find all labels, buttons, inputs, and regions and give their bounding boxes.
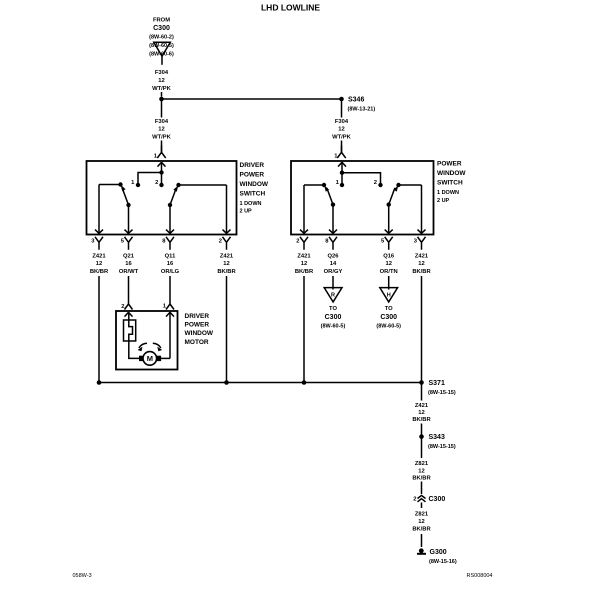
svg-text:POWER: POWER xyxy=(185,321,210,328)
svg-text:DRIVER: DRIVER xyxy=(240,162,265,169)
svg-text:8: 8 xyxy=(325,239,329,245)
svg-text:Z421: Z421 xyxy=(220,254,234,260)
svg-text:BK/BR: BK/BR xyxy=(412,269,431,275)
svg-text:SWITCH: SWITCH xyxy=(437,180,463,187)
svg-text:F304: F304 xyxy=(155,119,169,125)
svg-text:1 DOWN: 1 DOWN xyxy=(240,201,262,207)
svg-text:OR/TN: OR/TN xyxy=(380,269,398,275)
svg-text:RS008004: RS008004 xyxy=(467,573,493,579)
svg-text:C300: C300 xyxy=(380,314,397,321)
svg-text:DRIVER: DRIVER xyxy=(185,313,210,320)
svg-text:BK/BR: BK/BR xyxy=(295,269,314,275)
svg-text:2: 2 xyxy=(296,239,299,245)
svg-text:Q21: Q21 xyxy=(123,254,135,260)
svg-text:12: 12 xyxy=(301,261,307,267)
svg-text:1: 1 xyxy=(154,154,158,160)
svg-text:2 UP: 2 UP xyxy=(240,209,253,215)
svg-text:F304: F304 xyxy=(335,119,349,125)
svg-text:C300: C300 xyxy=(153,25,170,32)
svg-text:(8W-13-21): (8W-13-21) xyxy=(348,107,376,113)
svg-text:14: 14 xyxy=(330,261,337,267)
svg-text:(8W-60-2): (8W-60-2) xyxy=(149,35,174,41)
svg-text:Z421: Z421 xyxy=(297,254,311,260)
svg-text:12: 12 xyxy=(223,261,229,267)
svg-text:(8W-60-5): (8W-60-5) xyxy=(321,323,346,329)
svg-text:12: 12 xyxy=(418,519,424,525)
svg-text:G300: G300 xyxy=(430,549,447,556)
svg-text:Z821: Z821 xyxy=(415,461,429,467)
svg-text:Q16: Q16 xyxy=(383,254,395,260)
svg-text:(8W-15-15): (8W-15-15) xyxy=(428,444,456,450)
svg-text:Q26: Q26 xyxy=(328,254,340,260)
svg-text:Z421: Z421 xyxy=(415,254,429,260)
svg-text:M: M xyxy=(147,354,153,363)
svg-text:R: R xyxy=(331,293,335,299)
svg-text:BK/BR: BK/BR xyxy=(217,269,236,275)
svg-text:BK/BR: BK/BR xyxy=(412,476,431,482)
svg-text:S371: S371 xyxy=(429,380,445,387)
svg-text:16: 16 xyxy=(125,261,132,267)
svg-text:WT/PK: WT/PK xyxy=(152,86,171,92)
svg-text:BK/BR: BK/BR xyxy=(412,417,431,423)
svg-text:OR/GY: OR/GY xyxy=(324,269,343,275)
svg-text:8: 8 xyxy=(162,239,166,245)
svg-text:2 UP: 2 UP xyxy=(437,198,450,204)
svg-text:3: 3 xyxy=(91,239,95,245)
svg-text:C300: C300 xyxy=(429,496,446,503)
svg-text:2: 2 xyxy=(155,180,158,186)
svg-text:12: 12 xyxy=(96,261,102,267)
svg-text:WT/PK: WT/PK xyxy=(332,135,351,141)
svg-text:TO: TO xyxy=(385,306,393,312)
svg-text:F304: F304 xyxy=(155,70,169,76)
svg-text:TO: TO xyxy=(329,306,337,312)
svg-text:2: 2 xyxy=(413,497,416,503)
svg-text:(8W-60-6): (8W-60-6) xyxy=(149,52,174,58)
svg-text:3: 3 xyxy=(414,239,418,245)
svg-text:C300: C300 xyxy=(325,314,342,321)
svg-text:(8W-15-15): (8W-15-15) xyxy=(428,390,456,396)
svg-text:5: 5 xyxy=(381,239,385,245)
svg-text:12: 12 xyxy=(418,410,424,416)
svg-text:SWITCH: SWITCH xyxy=(240,191,266,198)
svg-text:S343: S343 xyxy=(429,434,445,441)
svg-text:LHD LOWLINE: LHD LOWLINE xyxy=(261,3,320,13)
svg-text:(8W-60-5): (8W-60-5) xyxy=(149,43,174,49)
svg-text:Z821: Z821 xyxy=(415,512,429,518)
svg-text:H: H xyxy=(387,293,391,299)
svg-text:5: 5 xyxy=(121,239,125,245)
svg-text:Z421: Z421 xyxy=(92,254,106,260)
svg-text:Q11: Q11 xyxy=(165,254,176,260)
svg-text:Z421: Z421 xyxy=(415,403,429,409)
svg-text:WINDOW: WINDOW xyxy=(437,170,466,177)
svg-text:2: 2 xyxy=(374,180,377,186)
svg-text:1: 1 xyxy=(336,180,340,186)
svg-text:2: 2 xyxy=(219,239,222,245)
svg-text:OR/LG: OR/LG xyxy=(161,269,180,275)
svg-text:2: 2 xyxy=(121,304,124,310)
svg-text:WT/PK: WT/PK xyxy=(152,135,171,141)
svg-text:12: 12 xyxy=(385,261,391,267)
svg-text:058W-3: 058W-3 xyxy=(73,573,92,579)
svg-text:POWER: POWER xyxy=(240,172,265,179)
svg-text:16: 16 xyxy=(167,261,174,267)
svg-text:BK/BR: BK/BR xyxy=(90,269,109,275)
svg-text:WINDOW: WINDOW xyxy=(185,330,214,337)
svg-text:(8W-60-5): (8W-60-5) xyxy=(376,323,401,329)
svg-text:FROM: FROM xyxy=(153,18,170,24)
svg-text:S346: S346 xyxy=(348,97,364,104)
svg-text:BK/BR: BK/BR xyxy=(412,527,431,533)
svg-text:12: 12 xyxy=(158,127,164,133)
svg-text:POWER: POWER xyxy=(437,161,462,168)
svg-text:MOTOR: MOTOR xyxy=(185,339,209,346)
svg-text:12: 12 xyxy=(338,127,344,133)
svg-text:12: 12 xyxy=(158,78,164,84)
svg-text:1 DOWN: 1 DOWN xyxy=(437,190,459,196)
svg-text:1: 1 xyxy=(131,180,135,186)
svg-text:12: 12 xyxy=(418,261,424,267)
svg-text:WINDOW: WINDOW xyxy=(240,181,269,188)
svg-text:(8W-15-16): (8W-15-16) xyxy=(429,559,457,565)
svg-text:12: 12 xyxy=(418,469,424,475)
svg-text:OR/WT: OR/WT xyxy=(119,269,139,275)
